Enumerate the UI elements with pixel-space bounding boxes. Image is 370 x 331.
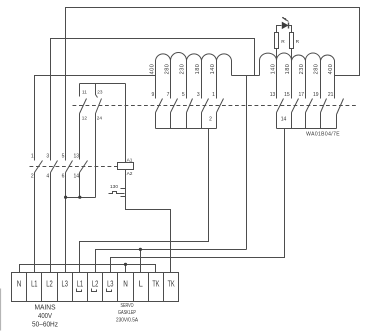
svg-text:11: 11 xyxy=(82,90,87,95)
svg-text:A1: A1 xyxy=(127,157,133,163)
tap 21 lead (coil end) xyxy=(334,61,336,99)
coil A1 feed xyxy=(125,84,127,163)
svg-text:23: 23 xyxy=(97,90,103,95)
svg-text:7: 7 xyxy=(167,92,170,98)
svg-text:WA01B04/7E: WA01B04/7E xyxy=(306,132,340,138)
tap 17 lead xyxy=(305,59,307,99)
svg-text:400: 400 xyxy=(149,64,155,75)
tap 5 lead xyxy=(186,59,188,99)
svg-text:TK: TK xyxy=(168,279,175,289)
svg-text:400: 400 xyxy=(328,64,334,75)
wire L3 phase: contact 5 top, over the top, down right side to right coil end xyxy=(66,8,360,161)
terminal strip outline xyxy=(12,273,179,302)
svg-text:21: 21 xyxy=(328,92,334,98)
switch S1 blade 1 xyxy=(217,99,224,129)
tap 13 lead xyxy=(276,49,278,99)
svg-text:N: N xyxy=(17,279,22,289)
LED arrowhead 1 xyxy=(282,17,284,19)
contact 23-24 blade xyxy=(96,99,102,114)
svg-text:5: 5 xyxy=(182,92,185,98)
switch S2 bus xyxy=(277,128,337,130)
LED D1 arrows xyxy=(283,18,289,22)
dashed linkage upper xyxy=(73,105,359,107)
svg-text:L1: L1 xyxy=(31,279,38,289)
junction dot L3/coil xyxy=(64,196,67,199)
LED D1 cathode bar xyxy=(288,23,290,29)
transformer winding T1 left arches xyxy=(156,53,232,61)
svg-text:12: 12 xyxy=(82,116,88,121)
svg-text:L: L xyxy=(139,279,143,289)
transformer winding T2 right arches xyxy=(260,53,335,60)
svg-text:230: 230 xyxy=(299,64,305,75)
svg-text:GASKLEP: GASKLEP xyxy=(118,310,136,316)
lead 12 to contact 13 xyxy=(79,114,81,160)
svg-text:SERVO: SERVO xyxy=(121,303,134,309)
svg-text:6: 6 xyxy=(62,174,65,180)
svg-text:14: 14 xyxy=(281,117,287,123)
switch S2 blade 19 xyxy=(321,99,327,129)
junction dot 14/coil xyxy=(78,196,81,199)
thermal cutout tick 1 xyxy=(121,188,126,190)
svg-text:2: 2 xyxy=(209,117,212,123)
svg-text:R: R xyxy=(296,39,300,45)
tap 1 lead xyxy=(216,59,218,99)
resistor R2 xyxy=(290,33,294,49)
svg-text:N: N xyxy=(123,279,128,289)
svg-text:L3: L3 xyxy=(107,279,114,289)
svg-text:280: 280 xyxy=(314,64,320,75)
contact 23 top lead with hook xyxy=(96,84,98,98)
svg-text:180: 180 xyxy=(285,64,291,75)
svg-text:1: 1 xyxy=(212,92,215,98)
svg-text:15: 15 xyxy=(284,92,290,98)
svg-text:17: 17 xyxy=(299,92,305,98)
svg-text:3: 3 xyxy=(197,92,200,98)
node 14 drop + H-c to servo L3 xyxy=(111,129,285,273)
svg-text:1: 1 xyxy=(31,154,34,160)
svg-text:50–60Hz: 50–60Hz xyxy=(32,321,58,328)
contact 1-2 blade xyxy=(35,161,43,173)
dashed linkage lower xyxy=(30,166,118,168)
svg-text:140: 140 xyxy=(270,64,276,75)
switch S2 blade 15 xyxy=(292,99,299,129)
svg-text:R: R xyxy=(281,39,285,45)
thermal cutout hump symbol xyxy=(109,192,125,194)
lead 14 to node xyxy=(79,173,81,198)
contactor K1 block top line xyxy=(80,83,126,85)
coil K1 box xyxy=(118,163,134,170)
svg-text:280: 280 xyxy=(164,64,170,75)
svg-text:230V/0.5A: 230V/0.5A xyxy=(116,318,138,324)
svg-text:L1: L1 xyxy=(77,279,84,289)
lead 24 down xyxy=(95,114,97,198)
scan artifact left edge xyxy=(0,289,2,331)
svg-text:24: 24 xyxy=(97,116,103,121)
contact 11 top lead xyxy=(79,84,81,97)
tap 15 lead xyxy=(291,49,293,99)
svg-text:19: 19 xyxy=(313,92,319,98)
svg-text:2: 2 xyxy=(31,174,34,180)
switch S1 blade 5 xyxy=(187,99,193,129)
tap 3 lead xyxy=(201,59,203,99)
svg-text:140: 140 xyxy=(210,64,216,75)
switch S2 blade 21 xyxy=(337,99,344,129)
lead 2 to mains L1 xyxy=(34,173,36,273)
contact 3-4 blade xyxy=(51,161,58,173)
junction dot servo N on H-d xyxy=(124,263,127,266)
svg-text:13: 13 xyxy=(270,92,276,98)
wire H-b: servo L2 to inter-coil drop xyxy=(96,250,247,273)
switch S2 blade 17 xyxy=(306,99,313,129)
terminal dividers xyxy=(27,273,164,302)
tap 7 lead xyxy=(170,59,172,99)
wire L2 phase: contact 3 top, across at y=38, down to inter-coil junction xyxy=(51,39,255,161)
lead 6 to mains L3 xyxy=(65,173,67,273)
svg-text:400V: 400V xyxy=(38,313,52,320)
svg-text:L2: L2 xyxy=(92,279,99,289)
svg-text:130: 130 xyxy=(110,184,118,190)
svg-text:9: 9 xyxy=(152,92,155,98)
svg-text:5: 5 xyxy=(62,154,65,160)
winding T2 start side xyxy=(259,61,261,76)
svg-text:230: 230 xyxy=(180,64,186,75)
hook mark under servo L1 xyxy=(77,289,82,292)
wire node L3-coil horizontal xyxy=(66,197,96,199)
svg-text:4: 4 xyxy=(46,174,49,180)
hook mark under servo L3 xyxy=(107,289,112,292)
wire inter-coil link xyxy=(232,75,260,77)
switch S1 blade 9 xyxy=(156,99,163,129)
switch S2 blade 13 xyxy=(277,99,284,129)
switch S1 blade 3 xyxy=(202,99,209,129)
node 2 drop to H-a xyxy=(80,129,209,273)
svg-text:13: 13 xyxy=(73,154,79,160)
switch S1 bus xyxy=(156,128,217,130)
wire inter-coil drop to H-b xyxy=(246,76,248,250)
LED D1 leads xyxy=(277,26,292,33)
contact 13-14 blade xyxy=(80,161,88,173)
contact 11-12 blade xyxy=(80,99,87,114)
svg-text:L3: L3 xyxy=(62,279,69,289)
servo N stub xyxy=(125,265,127,273)
switch S1 blade 7 xyxy=(171,99,178,129)
svg-text:14: 14 xyxy=(73,174,79,180)
tap 9 lead (coil start) xyxy=(155,61,157,99)
contact 5-6 blade xyxy=(66,161,73,173)
LED D1 triangle xyxy=(282,22,289,30)
resistor R1 xyxy=(275,33,279,49)
tap 19 lead xyxy=(320,59,322,99)
svg-text:L2: L2 xyxy=(46,279,53,289)
winding T1 end side xyxy=(231,61,233,76)
wire L1 phase: contact 1 top, across at y=75.6 to left coil start xyxy=(35,76,156,161)
svg-text:A2: A2 xyxy=(127,171,133,177)
thermal cutout tick 2 xyxy=(121,196,126,198)
svg-text:3: 3 xyxy=(46,154,49,160)
lead 4 to mains L2 xyxy=(50,173,52,273)
servo L stub xyxy=(140,250,142,273)
hook mark under servo L2 xyxy=(92,289,97,292)
svg-text:TK: TK xyxy=(152,279,159,289)
LED arrowhead 2 xyxy=(284,18,286,20)
coil K1 A2 lead xyxy=(126,170,171,273)
wire H-d: mains N to TK xyxy=(20,265,156,273)
junction dot servo L on H-b xyxy=(139,248,142,251)
svg-text:MAINS: MAINS xyxy=(35,304,56,311)
svg-text:180: 180 xyxy=(195,64,201,75)
